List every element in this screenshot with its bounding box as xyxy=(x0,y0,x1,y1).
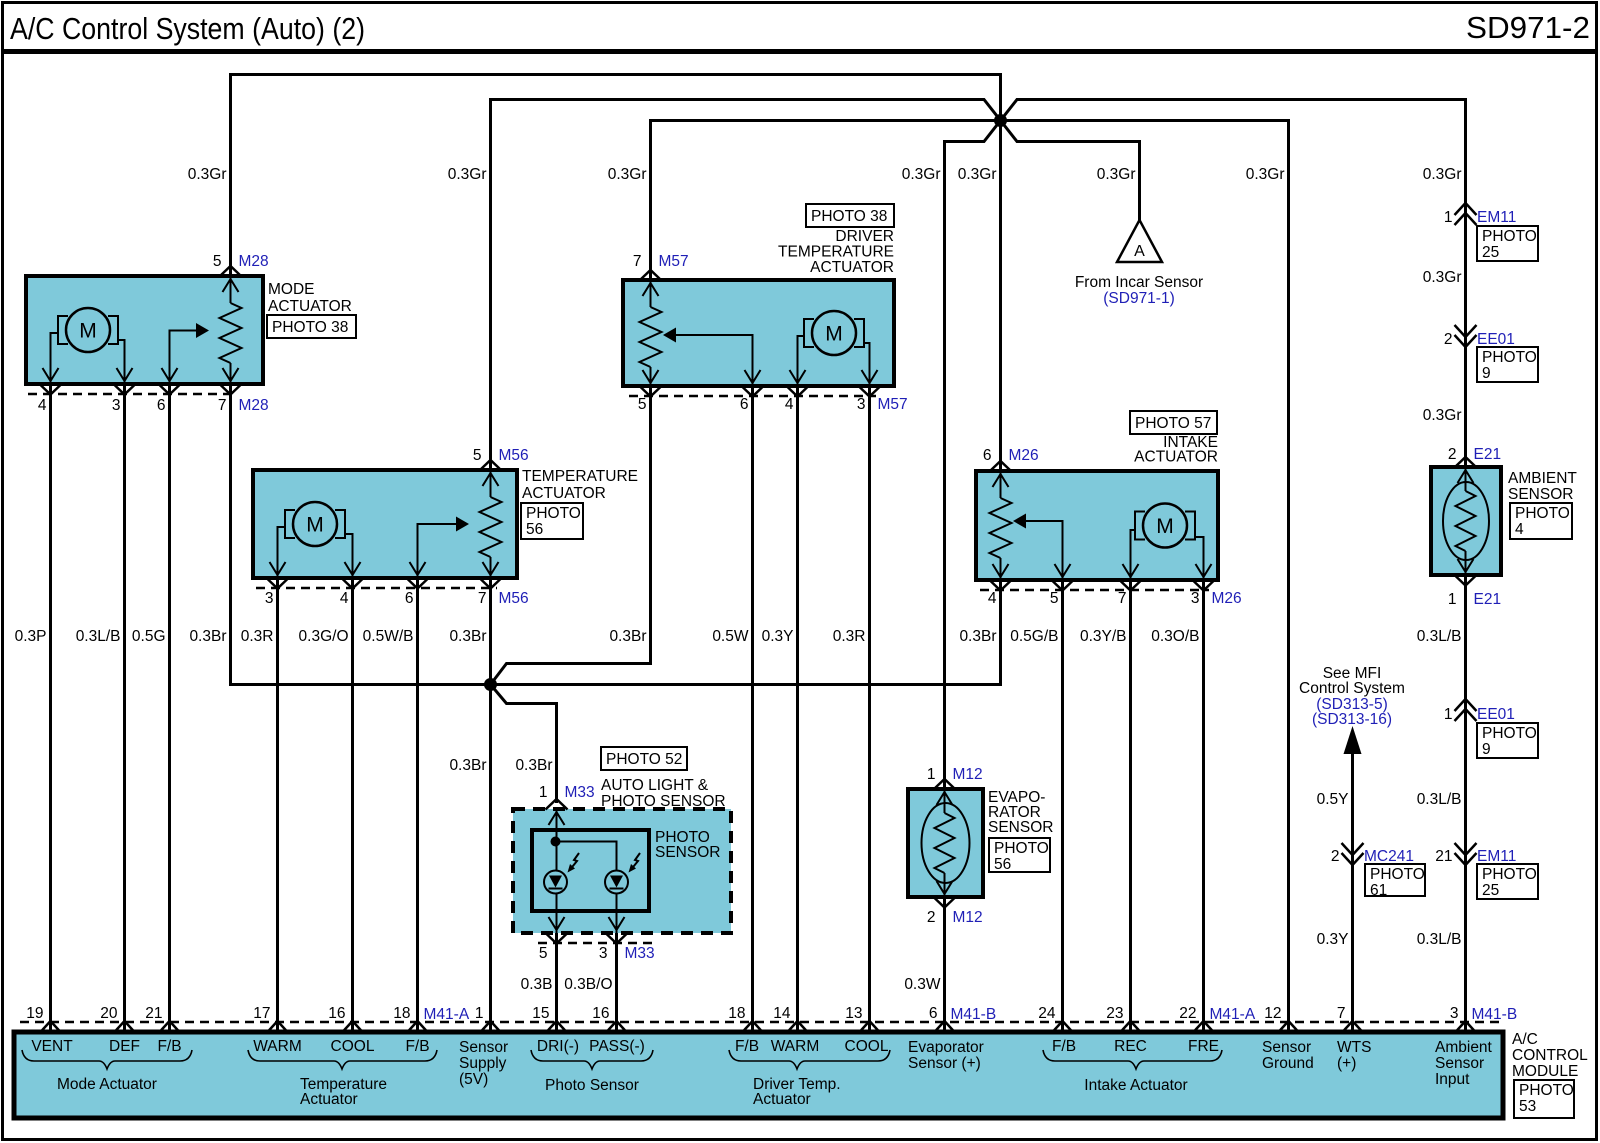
svg-text:Sensor (+): Sensor (+) xyxy=(908,1055,981,1072)
motor M inside mode actuator xyxy=(51,308,125,384)
A/C control module box xyxy=(14,1032,1503,1118)
svg-text:Ambient: Ambient xyxy=(1435,1039,1493,1056)
connector 2 MC241 xyxy=(1331,843,1414,865)
svg-text:7: 7 xyxy=(1118,590,1127,607)
intake actuator bottom pin 3 xyxy=(1191,580,1242,607)
from incar sensor triangle A xyxy=(1117,220,1162,262)
photo sensor top pin 1 M33 xyxy=(539,784,595,810)
svg-text:3: 3 xyxy=(599,945,608,962)
svg-text:M33: M33 xyxy=(565,784,595,801)
module pin 13 xyxy=(845,1005,879,1032)
module pin 24 xyxy=(1038,1005,1072,1032)
svg-text:MODULE: MODULE xyxy=(1512,1063,1578,1080)
svg-text:Actuator: Actuator xyxy=(300,1091,358,1108)
wire: WTS arrow up to MFI control system xyxy=(1344,726,1362,1032)
svg-text:1: 1 xyxy=(1444,209,1453,226)
thermistor symbol inside evaporator sensor xyxy=(922,789,970,897)
svg-text:18: 18 xyxy=(393,1005,410,1022)
see MFI control system label xyxy=(1299,665,1405,728)
connector 1 EE01 lower xyxy=(1444,699,1515,723)
photo sensor bottom pin 3 xyxy=(599,933,655,962)
svg-text:PHOTO: PHOTO xyxy=(1370,866,1425,883)
svg-text:2: 2 xyxy=(1331,848,1340,865)
module pin 16 xyxy=(328,1005,362,1032)
svg-text:WARM: WARM xyxy=(771,1038,820,1055)
svg-text:0.3Gr: 0.3Gr xyxy=(1246,166,1285,183)
connector 21 EM11 lower xyxy=(1435,843,1516,865)
svg-text:0.3Y: 0.3Y xyxy=(1317,931,1349,948)
title: SD971-2 xyxy=(1466,10,1590,45)
wiper arrow temperature actuator pin6 xyxy=(418,517,470,579)
svg-text:3: 3 xyxy=(265,590,274,607)
svg-text:Photo Sensor: Photo Sensor xyxy=(545,1077,639,1094)
svg-text:M33: M33 xyxy=(625,945,655,962)
svg-text:6: 6 xyxy=(405,590,414,607)
svg-text:0.3Br: 0.3Br xyxy=(449,757,486,774)
svg-text:0.3Gr: 0.3Gr xyxy=(1423,166,1462,183)
svg-text:ACTUATOR: ACTUATOR xyxy=(268,298,352,315)
svg-text:9: 9 xyxy=(1482,365,1491,382)
module pin 7 xyxy=(1337,1005,1363,1032)
svg-text:22: 22 xyxy=(1179,1005,1196,1022)
svg-text:EE01: EE01 xyxy=(1477,706,1515,723)
svg-text:16: 16 xyxy=(328,1005,345,1022)
svg-text:0.3Gr: 0.3Gr xyxy=(448,166,487,183)
svg-text:56: 56 xyxy=(526,521,543,538)
svg-text:16: 16 xyxy=(592,1005,609,1022)
svg-text:0.3Gr: 0.3Gr xyxy=(608,166,647,183)
resistor inside driver temp actuator xyxy=(640,280,662,386)
wire: photo sensor pin3 to module pin16 xyxy=(615,933,618,1032)
svg-text:19: 19 xyxy=(26,1005,43,1022)
svg-text:6: 6 xyxy=(983,447,992,464)
mode actuator bottom pin 6 xyxy=(157,384,181,414)
svg-text:7: 7 xyxy=(478,590,487,607)
svg-text:(SD313-16): (SD313-16) xyxy=(1312,711,1392,728)
evaporator sensor name label xyxy=(988,789,1053,836)
photodiode right light arrow xyxy=(629,853,641,873)
wiper arrow intake actuator pin5 xyxy=(1013,514,1063,581)
svg-text:5: 5 xyxy=(1050,590,1059,607)
temperature actuator bottom pin 6 xyxy=(405,578,429,607)
svg-text:A: A xyxy=(1134,243,1145,260)
photo sensor inside pin arrows xyxy=(549,812,625,930)
svg-text:TEMPERATURE: TEMPERATURE xyxy=(522,468,638,485)
svg-text:0.5G: 0.5G xyxy=(132,628,166,645)
module pin 14 xyxy=(773,1005,807,1032)
wire: mode actuator pin4 to module pin19 xyxy=(49,384,52,1032)
svg-text:M28: M28 xyxy=(239,253,269,270)
temperature actuator name label xyxy=(522,468,638,502)
svg-text:0.5W: 0.5W xyxy=(712,628,749,645)
mode actuator bottom pin 3 xyxy=(112,384,136,414)
wire: driver temp actuator pin3 to module pin13 xyxy=(868,386,871,1032)
svg-text:4: 4 xyxy=(785,396,794,413)
svg-text:M: M xyxy=(1156,515,1174,538)
svg-text:0.3Br: 0.3Br xyxy=(189,628,226,645)
wire: driver temp actuator pin4 to module pin14 xyxy=(796,386,799,1032)
svg-text:PHOTO: PHOTO xyxy=(526,505,581,522)
svg-text:M57: M57 xyxy=(659,253,689,270)
svg-text:1: 1 xyxy=(927,766,936,783)
module pin 12 xyxy=(1264,1005,1298,1032)
wire: ambient sensor pin1 down to module pin3 xyxy=(1464,575,1467,1032)
svg-text:AUTO LIGHT &: AUTO LIGHT & xyxy=(601,777,709,794)
svg-text:2: 2 xyxy=(1444,331,1453,348)
module pin 6 xyxy=(929,1005,955,1032)
photo sensor inner label xyxy=(655,829,720,861)
svg-text:0.3Gr: 0.3Gr xyxy=(958,166,997,183)
svg-text:21: 21 xyxy=(1435,848,1452,865)
svg-text:M56: M56 xyxy=(499,447,529,464)
ambient sensor name label xyxy=(1508,470,1577,503)
evaporator sensor inside pin arrows xyxy=(937,792,953,894)
svg-text:0.3L/B: 0.3L/B xyxy=(1417,791,1462,808)
junction dot X (1000,120) xyxy=(994,114,1007,127)
svg-text:TEMPERATURE: TEMPERATURE xyxy=(778,244,894,261)
photo sensor PHOTO 52 box xyxy=(601,747,687,770)
module label ambient sensor input xyxy=(1435,1039,1493,1088)
svg-text:PHOTO: PHOTO xyxy=(994,840,1049,857)
svg-text:PHOTO: PHOTO xyxy=(1482,228,1537,245)
svg-text:7: 7 xyxy=(633,253,642,270)
svg-text:0.3Br: 0.3Br xyxy=(449,628,486,645)
svg-text:14: 14 xyxy=(773,1005,791,1022)
svg-text:M: M xyxy=(79,320,97,343)
module brace intake actuator xyxy=(1043,1050,1222,1094)
svg-text:M41-A: M41-A xyxy=(424,1006,470,1023)
svg-text:24: 24 xyxy=(1038,1005,1056,1022)
svg-text:0.3L/B: 0.3L/B xyxy=(1417,931,1462,948)
svg-text:F/B: F/B xyxy=(735,1038,759,1055)
svg-text:EM11: EM11 xyxy=(1477,209,1516,226)
svg-text:Evaporator: Evaporator xyxy=(908,1039,984,1056)
mode actuator bottom connector dashed line xyxy=(28,393,237,396)
wire: intake actuator pin3 to module pin22 xyxy=(1202,580,1205,1032)
svg-text:15: 15 xyxy=(532,1005,549,1022)
driver temp actuator inside pin arrows xyxy=(643,283,878,383)
temperature actuator bottom pin 3 xyxy=(265,578,289,607)
driver temp actuator bottom pin 6 xyxy=(740,386,764,413)
ambient sensor top pin 2 E21 xyxy=(1448,446,1501,468)
wire: M28 pin7 down and right to sensor-supply junction, to intake pin4 xyxy=(231,384,1001,685)
module pin 3 xyxy=(1450,1005,1476,1032)
module pin 1 xyxy=(475,1005,501,1032)
title separator bar xyxy=(2,49,1597,54)
driver temp actuator bottom connector dashed line xyxy=(629,395,876,398)
svg-text:3: 3 xyxy=(1191,590,1200,607)
svg-text:M41-A: M41-A xyxy=(1210,1006,1256,1023)
photo sensor inner box xyxy=(532,830,649,911)
svg-text:0.3W: 0.3W xyxy=(904,976,941,993)
svg-text:0.3Gr: 0.3Gr xyxy=(1097,166,1136,183)
connector MC241 PHOTO 61 box xyxy=(1365,864,1425,899)
module pin 18 xyxy=(728,1005,762,1032)
svg-text:0.3Br: 0.3Br xyxy=(959,628,996,645)
svg-text:PHOTO SENSOR: PHOTO SENSOR xyxy=(601,793,726,810)
svg-text:MC241: MC241 xyxy=(1364,848,1414,865)
connector EM11 PHOTO 25 box top xyxy=(1477,226,1538,261)
module pin 17 xyxy=(253,1005,287,1032)
svg-text:SD971-2: SD971-2 xyxy=(1466,10,1590,45)
module connector name M41-A right xyxy=(1210,1006,1256,1023)
temperature actuator bottom pin 4 xyxy=(340,578,364,607)
svg-text:3: 3 xyxy=(112,397,121,414)
svg-text:EE01: EE01 xyxy=(1477,331,1515,348)
svg-text:PHOTO 38: PHOTO 38 xyxy=(811,208,887,225)
svg-text:3: 3 xyxy=(1450,1005,1459,1022)
wire: mode actuator pin6 to module pin21 xyxy=(168,384,171,1032)
mode actuator name label xyxy=(268,281,352,315)
svg-text:DRI(-): DRI(-) xyxy=(537,1038,579,1055)
svg-text:6: 6 xyxy=(929,1005,938,1022)
title: A/C Control System (Auto) (2) xyxy=(10,11,365,46)
photodiode right xyxy=(605,871,628,894)
module PHOTO 53 box xyxy=(1514,1080,1574,1118)
svg-text:ACTUATOR: ACTUATOR xyxy=(810,259,894,276)
svg-text:M26: M26 xyxy=(1212,590,1242,607)
motor M inside intake actuator xyxy=(1131,504,1204,581)
svg-text:F/B: F/B xyxy=(1052,1038,1076,1055)
svg-text:PHOTO: PHOTO xyxy=(1482,866,1537,883)
module pin 20 xyxy=(100,1005,134,1032)
svg-text:FRE: FRE xyxy=(1188,1038,1219,1055)
svg-text:5: 5 xyxy=(473,447,482,464)
svg-text:PASS(-): PASS(-) xyxy=(589,1038,645,1055)
svg-text:(+): (+) xyxy=(1337,1055,1356,1072)
thermistor symbol inside ambient sensor xyxy=(1443,467,1489,575)
intake actuator inside pin arrows xyxy=(993,474,1212,577)
svg-text:0.3Gr: 0.3Gr xyxy=(1423,407,1462,424)
svg-text:6: 6 xyxy=(157,397,166,414)
temperature actuator inside pin arrows xyxy=(270,473,499,575)
svg-text:4: 4 xyxy=(38,397,47,414)
resistor inside intake actuator xyxy=(990,471,1012,580)
svg-text:17: 17 xyxy=(253,1005,270,1022)
intake actuator bottom pin 7 xyxy=(1118,580,1142,607)
temperature actuator top pin 5 M56 xyxy=(473,447,529,471)
svg-text:M57: M57 xyxy=(878,396,908,413)
wire colour labels right mid xyxy=(1317,791,1462,808)
svg-text:0.3Gr: 0.3Gr xyxy=(188,166,227,183)
svg-text:F/B: F/B xyxy=(157,1038,181,1055)
svg-text:Sensor: Sensor xyxy=(1262,1039,1311,1056)
module connector name M41-B mid xyxy=(951,1006,997,1023)
wire: temp actuator pin3 to module pin17 xyxy=(276,578,279,1032)
svg-text:Sensor: Sensor xyxy=(459,1039,508,1056)
svg-text:53: 53 xyxy=(1519,1098,1536,1115)
temperature actuator bottom connector dashed line xyxy=(256,587,497,590)
driver temp actuator PHOTO 38 box xyxy=(806,204,894,227)
resistor inside mode actuator xyxy=(220,276,242,384)
svg-text:Mode Actuator: Mode Actuator xyxy=(57,1076,157,1093)
svg-text:SENSOR: SENSOR xyxy=(988,819,1053,836)
svg-text:4: 4 xyxy=(988,590,997,607)
svg-text:0.3Br: 0.3Br xyxy=(609,628,646,645)
svg-text:From Incar Sensor: From Incar Sensor xyxy=(1075,274,1203,291)
svg-text:2: 2 xyxy=(1448,446,1457,463)
svg-text:4: 4 xyxy=(1515,521,1524,538)
intake actuator PHOTO 57 box xyxy=(1130,411,1217,434)
svg-text:6: 6 xyxy=(740,396,749,413)
svg-text:(SD971-1): (SD971-1) xyxy=(1103,290,1175,307)
driver temp actuator bottom pin 3 xyxy=(857,386,908,413)
svg-text:A/C Control System (Auto) (2): A/C Control System (Auto) (2) xyxy=(10,11,365,46)
svg-text:0.3G/O: 0.3G/O xyxy=(299,628,349,645)
motor M inside temperature actuator xyxy=(278,502,353,578)
mode actuator inside pin arrows xyxy=(43,279,239,381)
svg-text:ACTUATOR: ACTUATOR xyxy=(522,485,606,502)
module pin 16 xyxy=(592,1005,626,1032)
wire colour labels mid row xyxy=(15,628,1462,645)
ambient sensor PHOTO 4 box xyxy=(1510,503,1572,539)
wire: intake actuator pin5 to module pin24 xyxy=(1061,580,1064,1032)
svg-text:0.3L/B: 0.3L/B xyxy=(76,628,121,645)
svg-text:DRIVER: DRIVER xyxy=(835,228,894,245)
svg-text:5: 5 xyxy=(213,253,222,270)
svg-text:PHOTO: PHOTO xyxy=(1515,505,1570,522)
svg-text:56: 56 xyxy=(994,856,1011,873)
svg-text:M: M xyxy=(306,514,324,537)
svg-text:Supply: Supply xyxy=(459,1055,507,1072)
svg-text:12: 12 xyxy=(1264,1005,1281,1022)
svg-text:M56: M56 xyxy=(499,590,529,607)
svg-text:Control System: Control System xyxy=(1299,680,1405,697)
auto light and photo sensor M33 dashed box xyxy=(513,809,731,933)
svg-text:0.3O/B: 0.3O/B xyxy=(1151,628,1199,645)
svg-text:M12: M12 xyxy=(953,909,983,926)
svg-text:0.3R: 0.3R xyxy=(241,628,274,645)
mode actuator top pin 5 M28 xyxy=(213,253,269,277)
svg-text:25: 25 xyxy=(1482,882,1499,899)
connector 1 EM11 top xyxy=(1444,203,1516,226)
mode actuator bottom pin 7 xyxy=(218,384,269,414)
driver temp actuator bottom pin 4 xyxy=(785,386,809,413)
svg-text:(5V): (5V) xyxy=(459,1071,488,1088)
wire colour labels 0.3Gr top row xyxy=(188,166,1462,183)
svg-text:13: 13 xyxy=(845,1005,862,1022)
junction dot sensor-supply (490,684) xyxy=(484,678,497,691)
from incar sensor label xyxy=(1075,274,1203,307)
svg-text:SENSOR: SENSOR xyxy=(655,844,720,861)
svg-text:25: 25 xyxy=(1482,244,1499,261)
svg-text:AMBIENT: AMBIENT xyxy=(1508,470,1577,487)
module pin 23 xyxy=(1106,1005,1140,1032)
svg-text:F/B: F/B xyxy=(405,1038,429,1055)
photo sensor bottom pin 5 xyxy=(539,933,568,962)
svg-text:0.3Gr: 0.3Gr xyxy=(1423,269,1462,286)
svg-text:1: 1 xyxy=(475,1005,484,1022)
wire: temp actuator pin4 to module pin16 xyxy=(351,578,354,1032)
svg-text:PHOTO 57: PHOTO 57 xyxy=(1135,415,1211,432)
svg-text:7: 7 xyxy=(1337,1005,1346,1022)
module brace photo sensor xyxy=(531,1050,653,1094)
driver temp actuator name label xyxy=(778,228,894,276)
svg-text:M41-B: M41-B xyxy=(1472,1006,1518,1023)
ambient sensor E21 box xyxy=(1431,467,1501,575)
wire: temperature actuator pin7 / sensor supply 5V down to module pin1 xyxy=(489,578,492,1032)
module label sensor ground xyxy=(1262,1039,1314,1072)
svg-text:E21: E21 xyxy=(1474,446,1502,463)
svg-text:21: 21 xyxy=(145,1005,162,1022)
svg-text:7: 7 xyxy=(218,397,227,414)
intake actuator top pin 6 M26 xyxy=(983,447,1039,472)
intake actuator bottom pin 4 xyxy=(988,580,1012,607)
svg-text:PHOTO 52: PHOTO 52 xyxy=(606,751,682,768)
svg-text:MODE: MODE xyxy=(268,281,315,298)
mode actuator bottom pin 4 xyxy=(38,384,62,414)
evaporator sensor bottom pin 2 M12 xyxy=(927,897,983,926)
photodiode left light arrow xyxy=(568,853,580,873)
svg-text:COOL: COOL xyxy=(845,1038,889,1055)
connector EE01 PHOTO 9 box top xyxy=(1477,347,1538,382)
svg-text:0.3Y/B: 0.3Y/B xyxy=(1080,628,1127,645)
wiper arrow mode actuator pin6 xyxy=(170,323,210,384)
svg-text:1: 1 xyxy=(1444,706,1453,723)
module top connector dashed line xyxy=(20,1021,1500,1024)
svg-text:20: 20 xyxy=(100,1005,118,1022)
module pin 18 xyxy=(393,1005,427,1032)
module label evaporator sensor xyxy=(908,1039,984,1072)
evaporator sensor PHOTO 56 box xyxy=(989,838,1050,873)
svg-text:Intake Actuator: Intake Actuator xyxy=(1084,1077,1187,1094)
svg-text:0.3R: 0.3R xyxy=(833,628,866,645)
temperature actuator M56 box xyxy=(253,470,517,578)
driver temperature actuator M57 box xyxy=(623,280,894,386)
wire: M57 pin5 branch into sensor-supply junction xyxy=(491,386,651,685)
svg-text:M28: M28 xyxy=(239,397,269,414)
svg-text:5: 5 xyxy=(539,945,548,962)
svg-text:WARM: WARM xyxy=(253,1038,302,1055)
svg-text:E21: E21 xyxy=(1474,591,1502,608)
svg-text:PHOTO: PHOTO xyxy=(1482,725,1537,742)
svg-text:M12: M12 xyxy=(953,766,983,783)
svg-text:2: 2 xyxy=(927,909,936,926)
svg-text:5: 5 xyxy=(638,396,647,413)
wire: photo sensor pin1 branch from sensor-supply junction xyxy=(491,685,557,804)
wire: temp actuator pin6 to module pin18 xyxy=(416,578,419,1032)
svg-text:SENSOR: SENSOR xyxy=(1508,486,1573,503)
svg-text:0.3B: 0.3B xyxy=(521,976,553,993)
ambient sensor inside pin arrows xyxy=(1458,470,1474,572)
wire colour labels right lower xyxy=(1317,931,1462,948)
photo sensor name label xyxy=(601,777,726,810)
svg-text:A/C: A/C xyxy=(1512,1031,1538,1048)
svg-text:M41-B: M41-B xyxy=(951,1006,997,1023)
svg-text:VENT: VENT xyxy=(31,1038,73,1055)
svg-text:PHOTO: PHOTO xyxy=(1482,349,1537,366)
svg-text:CONTROL: CONTROL xyxy=(1512,1047,1588,1064)
svg-text:1: 1 xyxy=(1448,591,1457,608)
svg-text:3: 3 xyxy=(857,396,866,413)
module brace driver temp actuator xyxy=(729,1050,890,1108)
svg-text:4: 4 xyxy=(340,590,349,607)
intake actuator bottom pin 5 xyxy=(1050,580,1074,607)
module brace mode actuator xyxy=(22,1050,192,1093)
connector EE01 PHOTO 9 box lower xyxy=(1477,723,1538,758)
svg-text:Actuator: Actuator xyxy=(753,1091,811,1108)
svg-text:18: 18 xyxy=(728,1005,745,1022)
photodiode left xyxy=(544,871,567,894)
wire: mode actuator pin3 to module pin20 xyxy=(123,384,126,1032)
photo sensor internal wiring xyxy=(551,809,617,933)
svg-text:0.3Y: 0.3Y xyxy=(762,628,794,645)
photo sensor bottom connector dashed line xyxy=(538,942,652,945)
svg-text:M26: M26 xyxy=(1009,447,1039,464)
svg-text:PHOTO 38: PHOTO 38 xyxy=(272,319,348,336)
svg-text:0.3L/B: 0.3L/B xyxy=(1417,628,1462,645)
connector EM11 PHOTO 25 box lower xyxy=(1477,864,1538,899)
